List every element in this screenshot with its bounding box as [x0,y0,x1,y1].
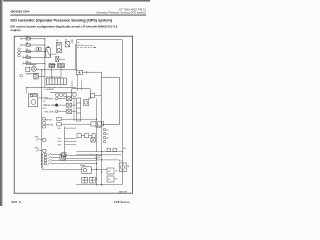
strip wire dots [49,87,62,88]
bus3 branch rows [65,128,77,145]
wire starter lower row [39,76,45,78]
pump motor block [29,93,38,106]
svg-text:WATER TEMP: WATER TEMP [44,104,56,107]
lamp L1 [49,64,55,68]
vertical wires mid right [97,99,102,160]
controller block U1 [101,77,119,124]
svg-text:ISO bus line to cab: ISO bus line to cab [78,44,93,47]
strip drop verticals [72,75,81,91]
wire row1 [21,38,45,40]
svg-text:B2: B2 [56,40,58,42]
svg-text:SW1: SW1 [35,137,39,139]
pin squares row [56,94,67,97]
terminal strip feed wires [52,68,62,79]
svg-text:OIL PRESS: OIL PRESS [44,99,54,101]
svg-text:21 20 19 18 17 16: 21 20 19 18 17 16 [46,76,60,78]
svg-text:SW2: SW2 [35,148,39,150]
E labels column [43,101,45,110]
lower long wires [76,152,121,155]
bus3 labels [57,128,62,147]
wire row3 [21,51,45,53]
fuse F3 [26,50,30,52]
svg-text:E3: E3 [43,108,45,110]
svg-text:LEVER SW: LEVER SW [44,125,53,127]
wire right bus vertical [121,40,123,185]
svg-text:1 Blk: 1 Blk [57,128,61,130]
fuse F1 [26,38,30,40]
svg-text:50-8 8: 50-8 8 [12,200,22,204]
relay block K3 rounded [72,88,91,98]
svg-text:ISO control system configurati: ISO control system configuration (Applic… [10,24,117,28]
wire end ticks [21,38,23,65]
wire mid row [26,86,76,88]
connector CN1 [18,48,21,57]
wire relay to controller [95,95,102,97]
header rule [10,14,146,17]
svg-text:4B8913F: 4B8913F [119,191,128,193]
svg-text:B+: B+ [78,42,80,44]
aux box right of relay block [91,93,95,98]
svg-text:RELAY: RELAY [80,164,86,167]
fuse holder pair [107,148,117,152]
wire row4 [23,56,45,58]
svg-text:(Operator Presence Sensing OPS: (Operator Presence Sensing OPS system) [96,12,146,15]
connector CN2 [20,74,23,77]
sensor S2 [55,103,71,107]
fuse F2 [26,44,30,46]
relay K1 [57,42,62,52]
bottom box pair [82,177,96,183]
relay block coil [73,93,77,97]
page left scan edge [0,0,3,206]
bus3 bottom component [62,153,67,157]
svg-text:ALT: ALT [119,160,122,163]
stacked box labels [108,171,117,181]
connector circles column [103,128,106,143]
fuse F4 [26,56,30,58]
bus2 vertical wire [41,70,43,168]
svg-text:B3: B3 [65,40,67,42]
wire bus1 vertical [44,39,46,88]
svg-text:E3: E3 [115,179,117,181]
svg-text:ISO controller (Operator Prese: ISO controller (Operator Presence Sensin… [10,17,112,22]
svg-text:C3: C3 [108,171,110,173]
fuse F5 [26,62,30,64]
sensor rows [44,97,76,114]
left switch group A [35,137,46,142]
bottom switch column [41,153,96,170]
left switch group B [35,148,46,153]
relay labels [56,40,73,45]
svg-text:C3: C3 [115,171,117,173]
wire top bus [77,40,123,185]
svg-text:TO ENGINE: TO ENGINE [44,89,54,91]
switch row B [44,123,91,127]
wire battery row [82,71,101,77]
fuse labels [26,35,29,63]
starter motor M1 [26,65,37,72]
bus junction dots [44,38,45,64]
svg-text:C08 Series: C08 Series [114,200,130,204]
inline component group [91,122,104,126]
svg-text:1 Orn: 1 Orn [57,138,61,140]
diode pair D1 [36,48,41,50]
lamp L2 [57,64,64,68]
schematic frame [14,36,132,193]
page top scan edge [0,0,150,2]
right join vertical [73,97,75,121]
svg-text:FUEL LEVEL: FUEL LEVEL [44,111,54,113]
key switch box [60,154,65,160]
svg-text:STARTER SW: STARTER SW [25,72,37,75]
svg-text:1 Red: 1 Red [57,141,61,143]
connector X-box [91,138,95,142]
timer box T1 [84,99,89,105]
terminal strip TB1 [46,78,66,85]
bus3 vertical [64,127,66,158]
bottom wires [76,155,122,186]
svg-text:engine): engine) [10,28,20,32]
small squares column [43,118,46,128]
series chain bottom center [77,134,95,138]
battery B+ box [76,70,82,74]
connector circle labels [107,128,109,139]
wire mid rows [50,44,75,70]
wire row2 [21,44,45,46]
svg-text:E1: E1 [43,101,45,103]
relay K2 [65,42,69,47]
switch row A [44,117,96,121]
sensor S3 [55,110,71,114]
right stacked boxes [107,168,114,182]
right tall component [119,163,126,171]
svg-text:1B: 1B [127,166,129,168]
svg-text:E3: E3 [108,179,110,181]
resistor R1 hatched [34,73,39,79]
junction dots [41,51,123,185]
svg-text:SEAT SW: SEAT SW [44,118,52,121]
connector X-box CN3 [56,56,59,61]
sensor S1 [55,97,71,101]
bottom relay box [82,167,92,174]
wire starter row [26,70,77,93]
battery box BT1 [46,46,51,57]
wire row5 [23,62,45,64]
dashed arrow note [78,47,97,49]
svg-text:BIO1981-0104: BIO1981-0104 [11,9,30,13]
wire battery feed vertical [76,40,78,71]
key switch wires [65,156,101,159]
narrow block lower [76,98,80,121]
